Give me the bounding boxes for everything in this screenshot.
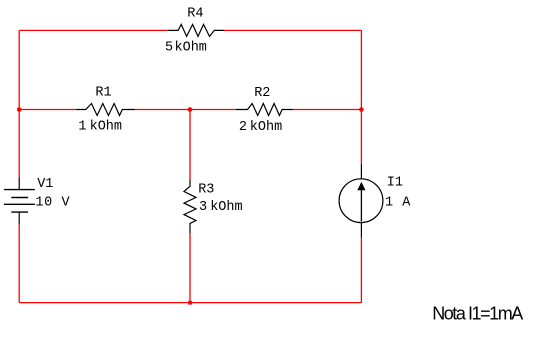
svg-text:3: 3 bbox=[199, 200, 207, 215]
label R3 value 3 kOhm bbox=[199, 200, 243, 215]
svg-text:kOhm: kOhm bbox=[250, 120, 282, 135]
node A junction dot left middle bbox=[17, 107, 22, 112]
wire middle vertical upper (node B to R3) bbox=[189, 110, 191, 180]
wire top right bbox=[224, 29, 361, 31]
label V1 designator bbox=[37, 177, 53, 192]
svg-text:1: 1 bbox=[78, 119, 86, 134]
resistor R2 body bbox=[236, 104, 293, 116]
label R2 value 2 kOhm bbox=[239, 120, 282, 135]
current source I1 top lead bbox=[360, 164, 362, 179]
svg-text:kOhm: kOhm bbox=[90, 119, 122, 134]
battery V1 top lead bbox=[18, 177, 20, 189]
battery V1 plate 1 long bbox=[4, 189, 35, 191]
wire middle center (R1 to R2) bbox=[135, 109, 236, 111]
wire bottom rail bbox=[19, 302, 361, 304]
label R2 designator bbox=[254, 86, 270, 101]
svg-text:R3: R3 bbox=[198, 182, 214, 197]
node D junction dot bottom center bbox=[188, 301, 192, 305]
battery V1 bottom lead bbox=[18, 212, 20, 225]
svg-text:R1: R1 bbox=[95, 86, 111, 101]
node C junction dot right middle bbox=[359, 107, 364, 112]
svg-text:I1: I1 bbox=[387, 176, 403, 191]
node B junction dot center middle bbox=[188, 107, 193, 112]
label I1 value 1 A bbox=[385, 195, 411, 210]
current source I1 arrowhead bbox=[357, 182, 365, 191]
svg-text:1 A: 1 A bbox=[385, 195, 411, 210]
wire middle left (node A to R1) bbox=[19, 109, 76, 111]
wire top left (node top rail) bbox=[19, 29, 168, 31]
current source I1 arrow shaft bbox=[360, 190, 362, 222]
wire left lower (V1 to bottom rail) bbox=[18, 225, 20, 303]
resistor R3 body bbox=[184, 179, 196, 233]
svg-text:2: 2 bbox=[239, 120, 247, 135]
label I1 designator bbox=[387, 176, 403, 191]
battery V1 plate 3 long bbox=[4, 203, 35, 205]
svg-text:kOhm: kOhm bbox=[175, 40, 207, 55]
label R1 designator bbox=[95, 86, 111, 101]
label R4 designator bbox=[187, 7, 203, 22]
current source I1 bottom lead bbox=[360, 223, 362, 238]
svg-text:R4: R4 bbox=[187, 7, 203, 22]
svg-text:kOhm: kOhm bbox=[210, 200, 242, 215]
battery V1 plate 2 short bbox=[11, 197, 28, 199]
svg-text:V1: V1 bbox=[37, 177, 53, 192]
svg-text:5: 5 bbox=[165, 40, 173, 55]
wire middle vertical lower (R3 to bottom rail) bbox=[189, 234, 191, 303]
battery V1 plate 4 short bbox=[11, 211, 28, 213]
label R3 designator bbox=[198, 182, 214, 197]
resistor R4 body bbox=[168, 24, 224, 36]
current source I1 circle bbox=[339, 179, 383, 223]
label R1 value 1 kOhm bbox=[78, 119, 122, 134]
svg-text:10 V: 10 V bbox=[35, 195, 70, 210]
label V1 value 10 V bbox=[35, 195, 70, 210]
wire middle right (R2 to right rail) bbox=[293, 109, 362, 111]
wire right upper (I1 to top rail) bbox=[360, 30, 362, 163]
svg-text:R2: R2 bbox=[254, 86, 270, 101]
svg-text:Nota I1=1mA: Nota I1=1mA bbox=[432, 303, 523, 323]
wire left upper (V1 to top rail) bbox=[18, 30, 20, 177]
wire right lower (I1 to bottom rail) bbox=[360, 237, 362, 302]
resistor R1 body bbox=[76, 104, 134, 116]
label R4 value 5 kOhm bbox=[165, 40, 207, 55]
note text Nota I1=1mA bbox=[432, 303, 523, 323]
